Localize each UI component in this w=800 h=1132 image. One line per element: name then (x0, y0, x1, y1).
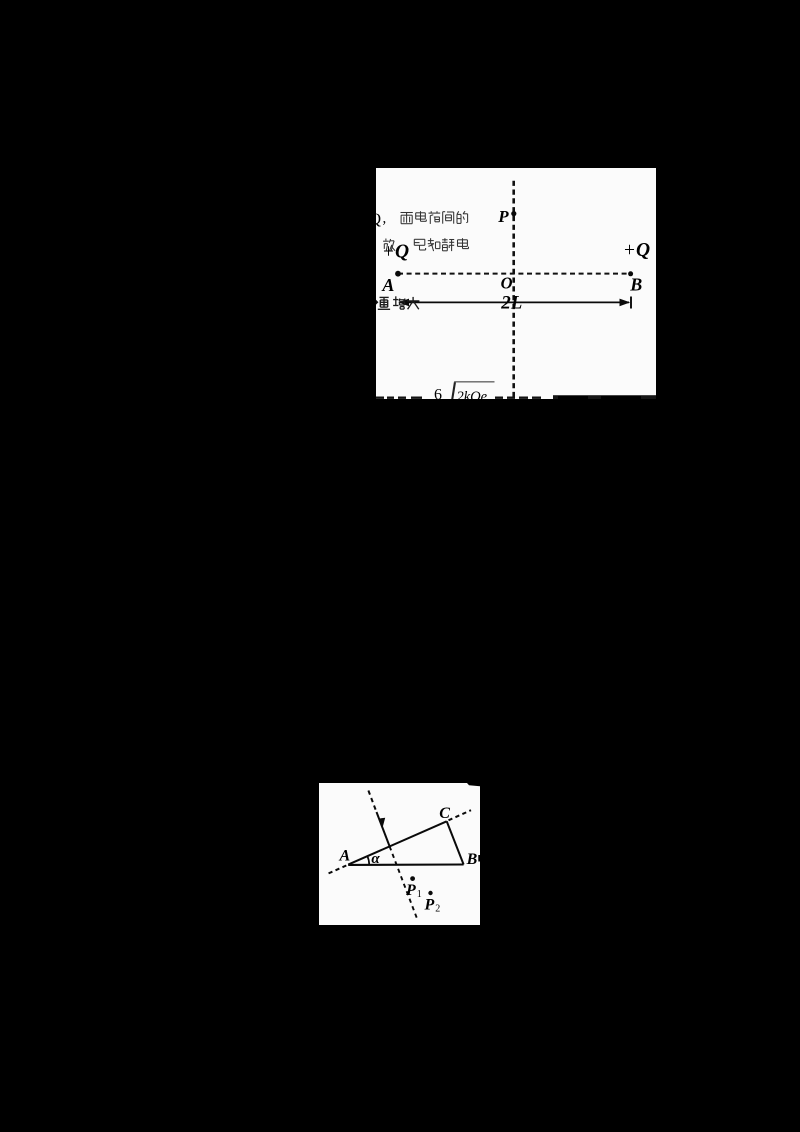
svg-text:O: O (501, 273, 513, 292)
svg-text:2: 2 (435, 903, 440, 914)
svg-text:,: , (383, 211, 387, 227)
svg-text:P: P (497, 207, 509, 226)
svg-text:1: 1 (417, 889, 422, 900)
svg-text:A: A (339, 847, 351, 864)
svg-text:2: 2 (500, 292, 511, 313)
svg-text:B: B (629, 275, 642, 295)
svg-text:2kQe: 2kQe (457, 389, 488, 399)
svg-text:C: C (439, 805, 450, 822)
svg-text:A: A (381, 275, 394, 295)
svg-text:B: B (466, 851, 478, 868)
svg-text:L: L (510, 293, 522, 313)
svg-text:P: P (405, 882, 416, 899)
svg-text:6: 6 (434, 387, 442, 400)
svg-text:+Q: +Q (382, 241, 409, 262)
svg-text:P: P (424, 897, 435, 914)
svg-text:α: α (371, 851, 380, 867)
svg-text:Q: Q (376, 211, 382, 228)
svg-text:+Q: +Q (623, 240, 650, 261)
